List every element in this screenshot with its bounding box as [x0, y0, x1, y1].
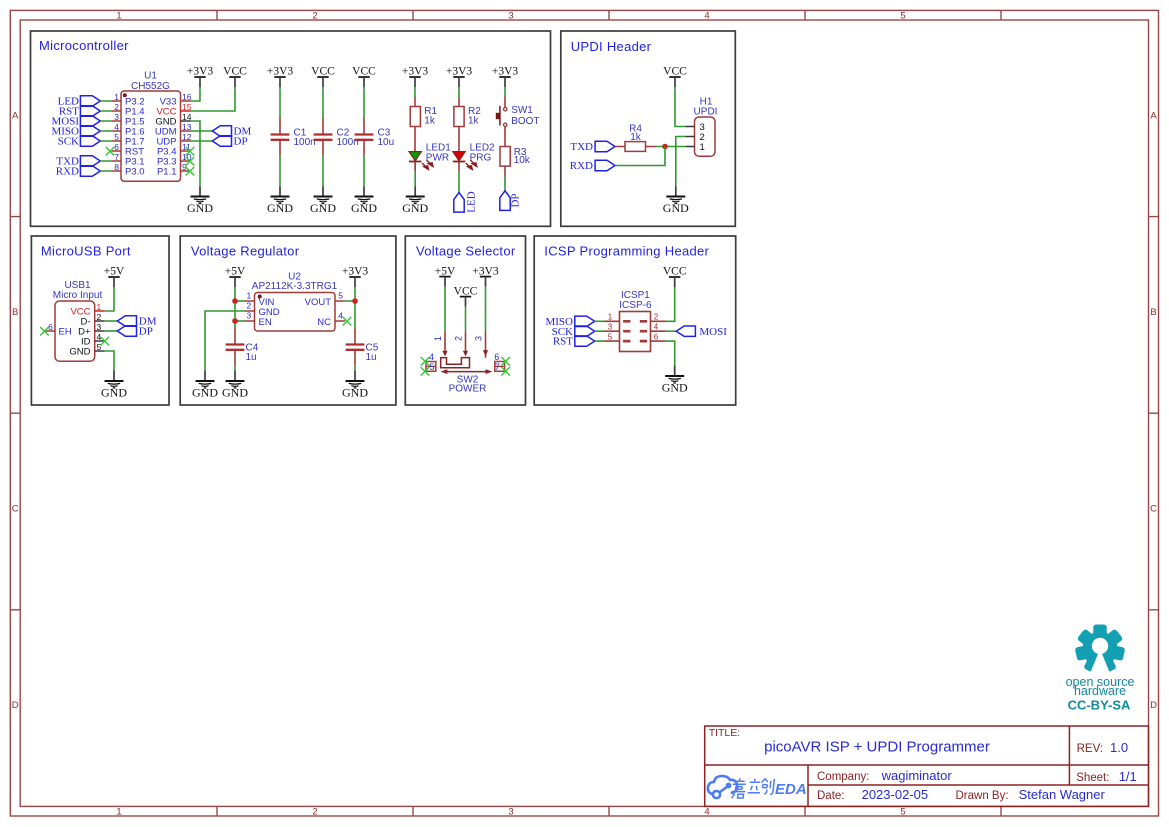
svg-text:13: 13	[182, 122, 192, 132]
wire +3V3 to R2	[458, 87, 460, 97]
svg-text:CH552G: CH552G	[131, 81, 170, 92]
wire C2 to GND	[322, 156, 324, 187]
USB1 left pin stub 6	[45, 330, 55, 332]
svg-text:4: 4	[654, 323, 659, 332]
svg-text:5: 5	[114, 132, 119, 142]
svg-text:1k: 1k	[468, 116, 480, 127]
net flag LED (vertical)	[454, 191, 478, 212]
junction node VIN	[232, 298, 238, 304]
switch SW2 POWER	[426, 332, 505, 395]
svg-text:100n: 100n	[294, 137, 316, 148]
power flag VCC (UPDI)	[663, 66, 687, 87]
svg-text:picoAVR ISP + UPDI Programmer: picoAVR ISP + UPDI Programmer	[764, 739, 990, 756]
svg-text:1: 1	[608, 313, 613, 322]
power flag VCC (ICSP)	[663, 266, 687, 287]
net flag RST (ICSP)	[553, 336, 595, 348]
svg-text:EH: EH	[59, 326, 72, 337]
resistor R2 1k	[454, 97, 481, 127]
no-connect SW2 pin6	[501, 357, 510, 366]
svg-text:Company:: Company:	[817, 771, 869, 783]
svg-text:3: 3	[508, 11, 513, 22]
svg-text:2: 2	[312, 807, 317, 818]
power flag +3V3 (SW1)	[492, 66, 519, 87]
svg-text:D: D	[1150, 700, 1157, 711]
svg-text:VCC: VCC	[352, 66, 376, 78]
net flag TXD	[56, 156, 100, 168]
svg-text:Sheet:: Sheet:	[1076, 772, 1109, 784]
svg-text:5: 5	[97, 342, 102, 352]
svg-text:4: 4	[338, 311, 343, 321]
svg-text:2023-02-05: 2023-02-05	[862, 787, 929, 802]
svg-text:C: C	[12, 504, 19, 515]
LED2 PRG (red)	[453, 143, 495, 170]
no-connect SW2 pin4	[421, 357, 430, 366]
svg-text:VCC: VCC	[663, 66, 687, 78]
svg-text:UPDI: UPDI	[694, 106, 718, 117]
ground (U2 pin2)	[192, 371, 218, 400]
svg-text:UPDI Header: UPDI Header	[571, 39, 652, 54]
svg-text:U1: U1	[144, 70, 157, 81]
power flag +3V3 (VREG)	[342, 266, 369, 287]
ground (USB)	[101, 371, 127, 400]
svg-text:4: 4	[114, 122, 119, 132]
svg-text:7: 7	[114, 152, 119, 162]
ground (C2)	[310, 186, 336, 215]
net flag DP (vertical)	[500, 191, 522, 211]
wire R3 to DP flag	[504, 177, 506, 191]
svg-text:3: 3	[97, 322, 102, 332]
wire pin15 to VCC	[191, 87, 236, 111]
wire C5 to GND	[354, 365, 356, 371]
svg-text:P3.0: P3.0	[125, 166, 145, 177]
svg-text:1.0: 1.0	[1110, 740, 1128, 755]
svg-text:1u: 1u	[246, 352, 257, 363]
net flag SCK	[58, 136, 101, 148]
svg-text:1/1: 1/1	[1119, 769, 1137, 784]
svg-text:3: 3	[473, 336, 483, 341]
svg-text:5: 5	[900, 807, 905, 818]
capacitor C3 10u	[355, 117, 395, 156]
wire pin16 to +3V3	[191, 87, 201, 101]
svg-text:POWER: POWER	[449, 384, 487, 395]
svg-text:1k: 1k	[424, 116, 436, 127]
wire GND pin5 to GND	[105, 351, 114, 371]
wire ICSP pin2 to VCC	[666, 287, 675, 321]
svg-text:DP: DP	[234, 136, 248, 148]
U1 right pin numbers 9-16	[182, 92, 192, 172]
wire D+ to DP	[105, 330, 118, 332]
svg-text:2: 2	[247, 301, 252, 311]
wire VCC to SW2 pin2	[465, 307, 467, 332]
svg-text:1: 1	[114, 92, 119, 102]
svg-text:AP2112K-3.3TRG1: AP2112K-3.3TRG1	[252, 281, 338, 292]
no-connect EH pin6	[40, 327, 49, 336]
power flag VCC (U1 VCC)	[223, 66, 247, 87]
svg-text:SW1: SW1	[511, 105, 533, 116]
resistor R1 1k	[410, 97, 437, 127]
svg-text:DP: DP	[510, 193, 522, 207]
ground (LED1)	[402, 186, 428, 215]
switch SW1 BOOT	[496, 97, 540, 147]
svg-text:1: 1	[247, 291, 252, 301]
svg-text:1: 1	[700, 142, 705, 153]
wires flags to ICSP pins 1,3,5	[595, 321, 605, 341]
LED1 cathode pin	[414, 162, 416, 172]
net flag TXD	[570, 141, 615, 153]
svg-text:PWR: PWR	[426, 152, 449, 163]
svg-text:Drawn By:: Drawn By:	[956, 790, 1009, 802]
svg-text:Voltage Selector: Voltage Selector	[416, 243, 516, 258]
section titles	[39, 38, 710, 258]
net flag DP	[212, 136, 247, 148]
wire pin14 to GND	[191, 121, 201, 186]
svg-text:10k: 10k	[514, 155, 531, 166]
connector H1 UPDI	[686, 97, 718, 157]
svg-text:Date:: Date:	[817, 790, 845, 802]
capacitor C4 1u	[226, 328, 259, 366]
svg-text:+3V3: +3V3	[472, 265, 499, 277]
capacitor C1 100n	[271, 117, 316, 156]
svg-text:VCC: VCC	[663, 266, 687, 278]
wire VCC to C2	[322, 87, 324, 117]
svg-text:1k: 1k	[630, 132, 642, 143]
U1 right pin stubs	[181, 101, 191, 171]
svg-text:RXD: RXD	[56, 166, 79, 178]
wire +3V3 to SW1	[504, 87, 506, 97]
U1 left pin stubs	[112, 101, 121, 171]
net flag RST	[59, 106, 100, 118]
wire LED2 to LED flag	[458, 171, 460, 193]
svg-text:Microcontroller: Microcontroller	[39, 38, 129, 53]
power flag +3V3 (U1 V33)	[187, 66, 214, 87]
svg-text:SCK: SCK	[58, 136, 79, 148]
svg-text:ICSP Programming Header: ICSP Programming Header	[544, 243, 709, 258]
wire +3V3 to SW2 pin3	[485, 287, 487, 332]
net flag LED	[58, 96, 101, 108]
net flag MOSI (ICSP)	[676, 326, 727, 338]
power flag +3V3 (R1)	[402, 66, 429, 87]
no-connect ID pin4	[100, 337, 109, 346]
LED1 PWR (green)	[409, 143, 451, 170]
svg-text:VOUT: VOUT	[305, 297, 332, 308]
title block	[705, 726, 1149, 806]
svg-text:4: 4	[704, 11, 709, 22]
svg-text:RST: RST	[553, 336, 573, 348]
wire VCC to H1 pin3	[675, 87, 686, 127]
svg-text:5: 5	[608, 332, 613, 341]
svg-text:P1.1: P1.1	[157, 166, 177, 177]
svg-text:EN: EN	[259, 317, 272, 328]
net flag DM (USB)	[117, 316, 156, 328]
svg-text:Voltage Regulator: Voltage Regulator	[191, 243, 300, 258]
svg-text:2: 2	[114, 102, 119, 112]
wire C3 to GND	[363, 156, 365, 187]
U1 right pin names	[155, 96, 177, 177]
USB1 pin names	[69, 306, 91, 357]
wire +5V branch to EN	[235, 320, 245, 322]
net flag DP (USB)	[117, 326, 153, 338]
capacitor C5 1u	[346, 328, 379, 366]
svg-text:12: 12	[182, 132, 192, 142]
svg-text:+3V3: +3V3	[342, 266, 369, 278]
svg-text:A: A	[1150, 110, 1157, 121]
svg-text:+3V3: +3V3	[492, 66, 519, 78]
power flag VCC (C2)	[311, 66, 335, 87]
no-connect pin6 RST	[106, 147, 115, 156]
wire VOUT to +3V3 and C5	[345, 287, 355, 328]
wire H1 pin2 to GND	[676, 137, 686, 187]
svg-text:2: 2	[97, 312, 102, 322]
svg-text:TXD: TXD	[570, 141, 593, 153]
svg-text:TITLE:: TITLE:	[709, 727, 741, 739]
wire LED1 to GND	[414, 162, 416, 187]
net flag MISO	[51, 126, 100, 138]
svg-text:Micro Input: Micro Input	[53, 290, 103, 301]
svg-text:5: 5	[900, 11, 905, 22]
svg-text:3: 3	[508, 807, 513, 818]
resistor R3 10k	[500, 147, 531, 167]
svg-text:MOSI: MOSI	[699, 326, 727, 338]
svg-text:3: 3	[114, 112, 119, 122]
section boxes	[31, 31, 736, 405]
svg-text:2: 2	[654, 313, 659, 322]
svg-text:6: 6	[494, 352, 499, 362]
power flag +5V (VREG)	[225, 266, 246, 287]
ground (ICSP)	[662, 366, 688, 395]
svg-text:16: 16	[182, 92, 192, 102]
svg-text:Stefan Wagner: Stefan Wagner	[1019, 787, 1106, 802]
junction node VOUT	[352, 298, 358, 304]
junction node EN	[232, 318, 238, 324]
wire +3V3 to C1	[279, 87, 281, 117]
svg-text:14: 14	[182, 112, 192, 122]
net flag DM	[212, 126, 251, 138]
U1 left pin names	[125, 96, 145, 177]
resistor R4 1k	[615, 123, 656, 151]
net flag RXD	[56, 166, 101, 178]
ground (UPDI)	[663, 186, 689, 215]
JLC EDA logo	[708, 776, 737, 798]
svg-text:2: 2	[312, 11, 317, 22]
wire +5V to SW2 pin1	[444, 287, 446, 332]
svg-text:1: 1	[116, 807, 121, 818]
ground (C1)	[267, 186, 293, 215]
wires U1 left flags to pins	[100, 101, 111, 171]
svg-text:6: 6	[654, 332, 659, 341]
power flag VCC (C3)	[352, 66, 376, 87]
op-amp U1 body CH552G	[121, 70, 181, 181]
wire pin13 to DM	[191, 130, 213, 132]
wire ICSP pin6 to GND	[666, 341, 675, 366]
svg-text:REV:: REV:	[1077, 743, 1103, 755]
regulator U2 AP2112K-3.3TRG1	[245, 271, 346, 331]
svg-text:+5V: +5V	[104, 266, 125, 278]
svg-text:LED: LED	[465, 191, 477, 212]
ground (U1)	[187, 186, 213, 215]
ground (C5)	[342, 371, 368, 400]
capacitor C2 100n	[314, 117, 359, 156]
no-connect SW2 pin5	[421, 367, 430, 376]
svg-text:B: B	[1150, 307, 1156, 318]
LED2 cathode pin	[458, 162, 460, 172]
power flag +3V3 (C1)	[267, 66, 294, 87]
svg-text:+5V: +5V	[435, 265, 456, 277]
svg-text:2: 2	[453, 336, 463, 341]
svg-text:wagiminator: wagiminator	[881, 768, 953, 783]
wire U2 GND pin2 to GND	[205, 311, 245, 371]
connector ICSP1 ICSP-6	[605, 290, 666, 352]
svg-text:+3V3: +3V3	[402, 66, 429, 78]
wire +3V3 to R1	[414, 87, 416, 97]
svg-text:4: 4	[704, 807, 709, 818]
wire R2 to LED2	[458, 127, 460, 152]
svg-text:VCC: VCC	[223, 66, 247, 78]
svg-text:GND: GND	[69, 346, 90, 357]
svg-text:1: 1	[433, 336, 443, 341]
svg-text:A: A	[12, 110, 19, 121]
power flag +3V3 (R2)	[446, 66, 473, 87]
svg-text:5: 5	[430, 362, 435, 372]
net flag SCK (ICSP)	[552, 326, 595, 338]
svg-text:hardware: hardware	[1074, 684, 1126, 698]
wire +5V down to C4	[234, 287, 236, 328]
svg-text:BOOT: BOOT	[511, 116, 539, 127]
svg-text:VCC: VCC	[454, 285, 478, 297]
svg-text:1: 1	[116, 11, 121, 22]
svg-text:6: 6	[114, 142, 119, 152]
no-connect pins 11,10,9	[186, 147, 195, 176]
svg-text:RXD: RXD	[570, 160, 593, 172]
svg-text:CC-BY-SA: CC-BY-SA	[1068, 697, 1131, 712]
svg-text:+3V3: +3V3	[187, 66, 214, 78]
svg-text:10u: 10u	[378, 137, 395, 148]
svg-text:+3V3: +3V3	[267, 66, 294, 78]
wire R1 to LED1	[414, 127, 416, 152]
wire +5V branch to VIN	[235, 300, 245, 302]
U1 left pin numbers 1-8	[114, 92, 119, 172]
svg-text:MicroUSB Port: MicroUSB Port	[41, 243, 131, 258]
svg-text:B: B	[12, 307, 18, 318]
svg-text:EDA: EDA	[775, 781, 807, 798]
OSHW logo	[1075, 625, 1126, 675]
power flag VCC (VSEL)	[454, 285, 478, 306]
svg-text:NC: NC	[317, 317, 331, 328]
svg-text:5: 5	[338, 291, 343, 301]
svg-text:7: 7	[495, 362, 500, 372]
ground (C4)	[222, 371, 248, 400]
svg-text:PRG: PRG	[470, 152, 492, 163]
svg-text:VCC: VCC	[311, 66, 335, 78]
net flag RXD	[570, 160, 615, 172]
svg-text:+5V: +5V	[225, 266, 246, 278]
svg-text:3: 3	[608, 323, 613, 332]
USB1 right pin stubs 1-5	[95, 311, 105, 351]
wire D- to DM	[105, 320, 118, 322]
wire pin12 to DP	[191, 140, 213, 142]
svg-text:15: 15	[182, 102, 192, 112]
svg-text:C: C	[1150, 504, 1157, 515]
no-connect NC pin4	[343, 317, 352, 326]
svg-text:1u: 1u	[366, 352, 377, 363]
connector USB1 Micro Input	[53, 280, 103, 361]
svg-text:D: D	[12, 700, 19, 711]
svg-text:+3V3: +3V3	[446, 66, 473, 78]
wire RXD to junction	[615, 147, 665, 166]
power flag +5V (VSEL)	[435, 265, 456, 286]
svg-text:4: 4	[429, 352, 434, 362]
net flag MOSI	[51, 116, 100, 128]
USB1 pin numbers	[48, 302, 101, 352]
wire C4 to GND	[234, 365, 236, 371]
wire VCC to C3	[363, 87, 365, 117]
ground (C3)	[351, 186, 377, 215]
no-connect SW2 pin7	[501, 367, 510, 376]
svg-text:3: 3	[247, 311, 252, 321]
svg-text:8: 8	[114, 162, 119, 172]
power flag +5V (USB)	[104, 266, 125, 287]
svg-text:ICSP-6: ICSP-6	[619, 300, 652, 311]
svg-text:1: 1	[97, 302, 102, 312]
wire VCC pin1 to +5V	[105, 287, 114, 311]
svg-text:DP: DP	[139, 326, 153, 338]
net flag MISO (ICSP)	[545, 316, 594, 328]
power flag +3V3 (VSEL)	[472, 265, 499, 286]
wire ICSP pin4 to MOSI	[666, 330, 677, 332]
R3 bottom pin	[504, 166, 506, 177]
junction node TXD/RXD	[662, 144, 668, 150]
wire R4 to H1 pin1	[656, 146, 686, 148]
wire C1 to GND	[279, 156, 281, 187]
